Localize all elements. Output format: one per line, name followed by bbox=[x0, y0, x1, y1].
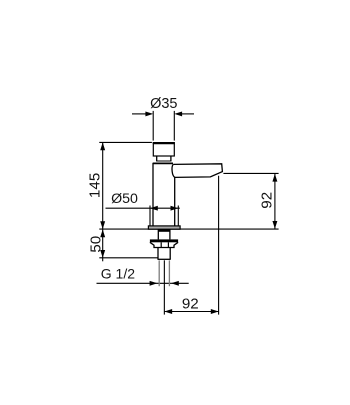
dimension line dia35 left tail bbox=[132, 113, 147, 115]
arrowhead dia35 left bbox=[145, 111, 153, 116]
dimension line 145 bbox=[102, 142, 104, 229]
base flange bbox=[148, 226, 180, 229]
tube under flange left bbox=[157, 229, 159, 239]
extension line 145 top bbox=[99, 141, 152, 143]
arrowhead 50 bottom bbox=[100, 250, 105, 258]
centerline extension bbox=[163, 260, 165, 314]
arrowhead G 1/2 right bbox=[171, 281, 179, 286]
dimension line dia50 bbox=[106, 207, 180, 209]
extension line 50 bottom bbox=[99, 257, 157, 259]
tube under flange dark band bbox=[158, 229, 170, 232]
extension line dia35 right bbox=[173, 111, 175, 141]
arrowhead 92 right bottom bbox=[272, 221, 277, 229]
faucet neck bottom bbox=[156, 160, 171, 162]
faucet body right side bbox=[174, 177, 176, 226]
arrowhead 145 top bbox=[100, 142, 105, 150]
svg-text:G 1/2: G 1/2 bbox=[101, 265, 135, 281]
dimension line dia35 right tail bbox=[181, 113, 194, 115]
dimension line 92 right bbox=[274, 173, 276, 229]
dimension line 92 bottom bbox=[164, 311, 218, 313]
thread line left bbox=[158, 260, 160, 286]
arrowhead 92 bottom left bbox=[164, 309, 172, 314]
faucet head cap top thick edge bbox=[153, 142, 175, 144]
backnut facet left bbox=[160, 242, 162, 247]
faucet body left side bbox=[152, 163, 154, 226]
extension line 92 bottom right bbox=[218, 176, 220, 315]
spout left rounded cap bbox=[172, 164, 175, 177]
inlet pipe left bbox=[157, 248, 159, 260]
svg-text:92: 92 bbox=[182, 295, 199, 312]
arrowhead 92 bottom right bbox=[211, 309, 219, 314]
extension line dia50 right bbox=[177, 206, 179, 227]
svg-text:50: 50 bbox=[88, 236, 105, 253]
extension line 92 right top bbox=[223, 172, 278, 174]
inlet pipe right bbox=[169, 248, 171, 260]
faucet neck left bbox=[156, 156, 158, 161]
arrowhead dia50 right bbox=[171, 206, 179, 211]
arrowhead dia50 left bbox=[150, 206, 158, 211]
thread line right bbox=[168, 260, 170, 286]
inlet pipe bottom bbox=[158, 258, 171, 260]
extension line dia50 left bbox=[149, 206, 151, 227]
arrowhead G 1/2 left bbox=[150, 281, 158, 286]
arrowhead 92 right top bbox=[272, 174, 277, 182]
backnut chamfer outline bbox=[150, 242, 178, 247]
backnut facet right bbox=[167, 242, 169, 247]
arrowhead 50 top bbox=[100, 229, 105, 237]
backnut top bar bbox=[150, 239, 178, 242]
leader line G 1/2 bbox=[97, 282, 189, 284]
arrowhead 145 bottom bbox=[100, 221, 105, 229]
svg-text:Ø50: Ø50 bbox=[111, 191, 138, 207]
dimension line 50 bbox=[102, 229, 104, 261]
mounting surface line bbox=[99, 228, 278, 230]
faucet body shoulder bbox=[153, 162, 173, 164]
faucet neck right bbox=[170, 156, 172, 161]
faucet head cap bbox=[153, 143, 174, 156]
extension line dia35 left bbox=[152, 111, 154, 141]
tube under flange right bbox=[169, 229, 171, 239]
spout outline bbox=[173, 164, 222, 178]
svg-text:145: 145 bbox=[87, 173, 104, 198]
svg-text:Ø35: Ø35 bbox=[150, 96, 177, 112]
arrowhead dia35 right bbox=[174, 111, 182, 116]
svg-text:92: 92 bbox=[259, 192, 276, 209]
